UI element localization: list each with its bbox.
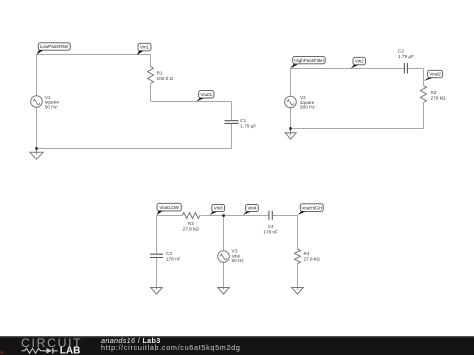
svg-text:Vin4: Vin4 [247,206,257,211]
svg-text:100.0 Ω: 100.0 Ω [157,76,174,81]
svg-text:178 nF: 178 nF [166,257,181,262]
svg-text:Vout1: Vout1 [200,92,212,97]
svg-text:27.8 kΩ: 27.8 kΩ [304,257,321,262]
svg-text:C3: C3 [166,251,172,256]
svg-text:http://circuitlab.com/cu6at5kq: http://circuitlab.com/cu6at5kq5m2dg [101,343,241,352]
svg-text:Vout2: Vout2 [429,72,441,77]
svg-text:500 Hz: 500 Hz [300,105,316,110]
svg-text:R4: R4 [304,251,310,256]
svg-text:R1: R1 [157,71,163,76]
svg-text:Vin3: Vin3 [214,206,224,211]
svg-text:Vin2: Vin2 [355,59,365,64]
svg-text:R2: R2 [431,90,437,95]
svg-text:C4: C4 [268,224,274,229]
svg-text:LAB: LAB [60,346,81,355]
svg-text:R3: R3 [188,221,194,226]
svg-text:1.79 µF: 1.79 µF [240,123,256,128]
svg-text:LowPassFilter: LowPassFilter [40,44,69,49]
svg-text:VoutLOW: VoutLOW [159,205,179,210]
svg-text:50 Hz: 50 Hz [45,104,58,109]
svg-text:178 nF: 178 nF [263,230,278,235]
svg-text:C2: C2 [398,49,404,54]
svg-text:VoutHIGH: VoutHIGH [301,205,322,210]
svg-text:Vin1: Vin1 [140,45,150,50]
svg-text:C1: C1 [240,118,246,123]
svg-text:278 kΩ: 278 kΩ [431,96,446,101]
svg-text:27.8 kΩ: 27.8 kΩ [183,226,200,231]
svg-text:50 Hz: 50 Hz [232,258,245,263]
svg-text:1.79 µF: 1.79 µF [398,54,414,59]
svg-text:HighPassFilter: HighPassFilter [294,58,324,63]
